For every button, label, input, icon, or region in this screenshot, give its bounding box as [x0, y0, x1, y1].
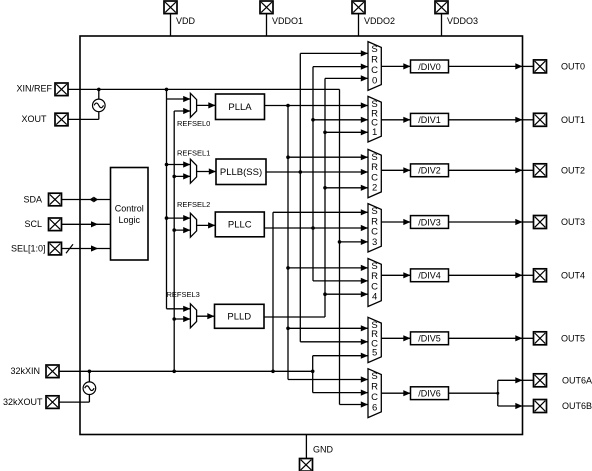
pin 32kXIN	[46, 365, 59, 378]
wire XIN reference rail	[166, 89, 168, 308]
wire PLLA to SRC6 in1	[288, 379, 368, 381]
wire PLLD output	[264, 316, 325, 318]
wire PLLA output to SRC1	[265, 105, 369, 107]
pin OUT5	[534, 332, 547, 345]
wire XIN/REF to SRC3 in3	[340, 241, 369, 243]
pll PLLA	[216, 94, 265, 120]
wire OUT2 pin stub	[523, 169, 534, 171]
wire to OUT6B	[498, 405, 523, 407]
svg-text:OUT3: OUT3	[561, 217, 585, 227]
svg-text:2: 2	[372, 183, 377, 194]
wire PLLA to SRC2 in1	[288, 156, 368, 158]
power pin VDDO3	[435, 1, 448, 14]
svg-text:C: C	[371, 65, 378, 76]
wire /DIV1 to OUT1	[449, 119, 523, 121]
wire XIN/REF rail	[339, 89, 341, 404]
mux SRC4	[368, 259, 381, 307]
wire PLLC output to SRC3	[264, 227, 368, 229]
power pin VDDO2	[352, 1, 365, 14]
wire 32kXIN	[59, 370, 313, 372]
svg-text:/DIV2: /DIV2	[418, 166, 441, 176]
wire REFSEL1 input 1	[167, 164, 191, 166]
svg-text:REFSEL3: REFSEL3	[167, 290, 200, 299]
pin SCL	[49, 218, 62, 231]
svg-text:PLLD: PLLD	[227, 311, 251, 322]
svg-text:C: C	[371, 392, 378, 403]
svg-text:S: S	[371, 44, 377, 55]
wire SRC0 to divider	[381, 65, 410, 67]
wire REFSEL2 input 2	[174, 229, 190, 231]
chip boundary	[80, 36, 523, 435]
wire REFSEL3 input 2	[174, 318, 190, 320]
mux SRC2	[368, 149, 381, 197]
svg-text:PLLC: PLLC	[228, 219, 252, 230]
ground pin GND	[305, 435, 307, 459]
wire PLLA to SRC4 in1	[288, 267, 368, 269]
wire PLLD to SRC1 in3	[325, 131, 368, 133]
pin OUT4	[534, 269, 547, 282]
svg-text:1: 1	[372, 127, 377, 138]
wire PLLB output to SRC2	[266, 171, 368, 173]
wire PLLC rail	[312, 67, 314, 281]
power pin VDD	[164, 1, 177, 14]
pll PLLD	[215, 304, 265, 328]
wire PLLB rail	[299, 53, 301, 341]
mux SRC6	[368, 369, 381, 418]
svg-text:Control: Control	[115, 204, 144, 214]
svg-text:REFSEL0: REFSEL0	[177, 119, 210, 128]
svg-text:XIN/REF: XIN/REF	[16, 84, 52, 94]
svg-text:VDD: VDD	[176, 16, 196, 26]
wire OUT3 pin stub	[523, 221, 534, 223]
svg-text:SDA: SDA	[23, 194, 42, 204]
wire /DIV0 to OUT0	[449, 65, 523, 67]
divider /DIV6	[411, 387, 449, 400]
svg-text:VDDO3: VDDO3	[447, 16, 478, 26]
svg-text:S: S	[371, 371, 377, 382]
svg-text:/DIV0: /DIV0	[418, 62, 441, 72]
pin SDA	[49, 193, 62, 206]
mux SRC3	[368, 204, 381, 252]
wire /DIV4 to OUT4	[449, 274, 523, 276]
divider /DIV4	[411, 269, 449, 282]
divider /DIV5	[411, 332, 449, 345]
svg-text:OUT0: OUT0	[561, 61, 585, 71]
pin OUT3	[534, 216, 547, 229]
wire OUT6B pin stub	[523, 405, 534, 407]
svg-text:/DIV6: /DIV6	[418, 389, 441, 399]
pin OUT6B	[534, 400, 547, 413]
control logic block	[111, 168, 149, 261]
wire PLLD to SRC4 in3	[325, 293, 368, 295]
wire SDA	[62, 199, 111, 201]
wire XIN/REF	[68, 88, 340, 90]
svg-text:5: 5	[372, 348, 377, 359]
wire SRC5 to divider	[381, 337, 410, 339]
wire REFSEL1 output	[197, 171, 216, 173]
divider /DIV1	[411, 113, 449, 126]
mux REFSEL3	[190, 304, 196, 328]
wire 32kXOUT	[59, 401, 89, 403]
wire 32k to SRC6 in2	[313, 392, 368, 394]
wire 32k to SRC3 in1	[273, 211, 368, 213]
mux REFSEL0	[190, 93, 196, 117]
wire 32k rail A	[272, 212, 274, 371]
wire SRC1 to divider	[381, 119, 410, 121]
wire PLLC to SRC4 in2	[313, 280, 368, 282]
wire SCL	[62, 223, 111, 225]
divider /DIV0	[411, 60, 449, 73]
pin SEL[1:0]	[49, 242, 62, 255]
wire PLLC to SRC1 in2	[313, 119, 368, 121]
power pin VDDO1	[260, 1, 273, 14]
wire 32k reference rail	[173, 111, 175, 371]
svg-text:VDDO2: VDDO2	[364, 16, 395, 26]
svg-text:SCL: SCL	[24, 219, 42, 229]
pin XOUT	[55, 113, 68, 126]
wire REFSEL3 output	[197, 315, 215, 317]
svg-text:3: 3	[372, 237, 377, 248]
wire PLLD to SRC2 in3	[325, 187, 368, 189]
divider /DIV3	[411, 216, 449, 229]
wire PLLA rail	[287, 106, 289, 380]
svg-text:6: 6	[372, 403, 377, 414]
svg-text:PLLA: PLLA	[228, 102, 252, 113]
mux SRC1	[368, 96, 381, 142]
svg-text:REFSEL2: REFSEL2	[177, 200, 210, 209]
svg-text:0: 0	[372, 75, 377, 86]
wire /DIV6 output	[449, 392, 498, 394]
wire SRC2 to divider	[381, 169, 410, 171]
svg-text:Logic: Logic	[119, 215, 141, 225]
wire /DIV5 to OUT5	[449, 337, 523, 339]
pll PLLB(SS)	[216, 159, 266, 185]
wire OUT6A pin stub	[523, 379, 534, 381]
pin 32kXOUT	[46, 396, 59, 409]
svg-text:4: 4	[372, 292, 377, 303]
wire REFSEL2 output	[197, 224, 216, 226]
wire REFSEL0 output	[197, 104, 216, 106]
svg-text:/DIV3: /DIV3	[418, 217, 441, 227]
svg-text:OUT1: OUT1	[561, 115, 585, 125]
pin OUT0	[534, 60, 547, 73]
wire OUT1 pin stub	[523, 119, 534, 121]
svg-text:SEL[1:0]: SEL[1:0]	[11, 243, 46, 253]
wire REFSEL0 input 2	[174, 110, 190, 112]
pin OUT6A	[534, 374, 547, 387]
svg-text:PLLB(SS): PLLB(SS)	[220, 167, 262, 178]
svg-text:/DIV4: /DIV4	[418, 271, 441, 281]
mux REFSEL1	[190, 159, 196, 183]
wire SRC3 to divider	[381, 221, 410, 223]
svg-text:OUT5: OUT5	[561, 333, 585, 343]
wire SRC6 to divider	[381, 392, 410, 394]
wire REFSEL1 input 2	[174, 175, 190, 177]
svg-text:R: R	[371, 382, 378, 393]
wire XOUT	[68, 118, 99, 120]
svg-text:/DIV5: /DIV5	[418, 334, 441, 344]
wire PLLD to SRC0 in3	[325, 77, 368, 79]
svg-text:32kXOUT: 32kXOUT	[3, 397, 43, 407]
divider /DIV2	[411, 164, 449, 177]
svg-text:OUT2: OUT2	[561, 165, 585, 175]
svg-text:XOUT: XOUT	[21, 114, 47, 124]
mux SRC0	[368, 42, 381, 91]
pll PLLC	[215, 212, 264, 237]
pin XIN/REF	[55, 83, 68, 96]
wire OUT4 pin stub	[523, 274, 534, 276]
wire 32k rail B	[312, 356, 314, 393]
mux SRC5	[368, 317, 381, 362]
wire REFSEL2 input 1	[167, 217, 191, 219]
wire REFSEL0 input 1	[167, 98, 191, 100]
svg-text:VDDO1: VDDO1	[272, 16, 303, 26]
pin OUT1	[534, 113, 547, 126]
wire PLLB to SRC0 in1	[300, 52, 368, 54]
wire /DIV2 to OUT2	[449, 169, 523, 171]
svg-text:R: R	[371, 55, 378, 66]
wire OUT6 split	[497, 380, 499, 406]
wire /DIV3 to OUT3	[449, 221, 523, 223]
wire PLLB to SRC5 in2	[300, 341, 368, 343]
svg-text:OUT4: OUT4	[561, 270, 585, 280]
pin OUT2	[534, 164, 547, 177]
crystal oscillator X2	[88, 371, 90, 382]
wire to OUT6A	[498, 379, 523, 381]
svg-text:GND: GND	[313, 445, 334, 455]
wire REFSEL3 input 1	[167, 308, 191, 310]
svg-text:/DIV1: /DIV1	[418, 115, 441, 125]
wire PLLC to SRC0 in2	[313, 66, 368, 68]
wire SEL[1:0] with bus slash	[62, 248, 111, 250]
wire 32k to SRC5 in3	[313, 355, 368, 357]
crystal oscillator X1	[98, 89, 100, 99]
wire OUT5 pin stub	[523, 337, 534, 339]
svg-text:REFSEL1: REFSEL1	[177, 149, 210, 158]
svg-text:OUT6B: OUT6B	[562, 401, 592, 411]
mux REFSEL2	[190, 213, 196, 237]
svg-text:32kXIN: 32kXIN	[10, 366, 40, 376]
wire XIN/REF to SRC6 in3	[340, 404, 369, 406]
wire PLLA to SRC5 in1	[288, 327, 368, 329]
wire PLLD rail	[324, 78, 326, 317]
wire SRC4 to divider	[381, 274, 410, 276]
svg-text:OUT6A: OUT6A	[562, 375, 592, 385]
wire OUT0 pin stub	[523, 65, 534, 67]
